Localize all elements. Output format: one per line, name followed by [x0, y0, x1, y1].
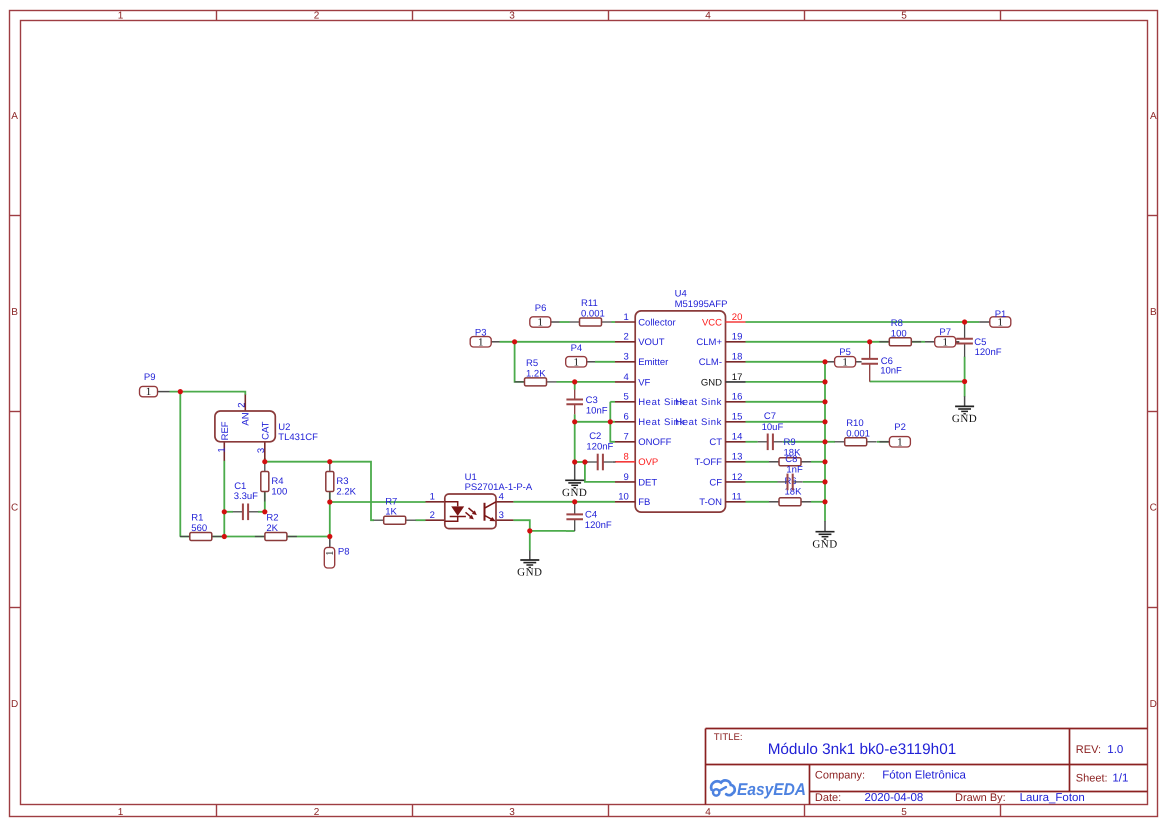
svg-text:1K: 1K	[385, 507, 397, 518]
svg-text:ONOFF: ONOFF	[638, 437, 671, 448]
svg-text:P9: P9	[144, 372, 156, 383]
svg-text:1: 1	[118, 11, 124, 22]
svg-text:11: 11	[732, 492, 742, 503]
svg-text:VOUT: VOUT	[638, 337, 665, 348]
svg-text:14: 14	[732, 432, 743, 443]
svg-text:GND: GND	[562, 487, 587, 499]
svg-text:3: 3	[256, 448, 267, 453]
svg-text:1/1: 1/1	[1112, 773, 1128, 785]
svg-text:P2: P2	[894, 422, 906, 433]
svg-text:P4: P4	[571, 343, 583, 354]
svg-text:Date:: Date:	[815, 792, 841, 804]
svg-text:A: A	[1150, 111, 1157, 122]
svg-text:Company:: Company:	[815, 769, 865, 781]
svg-text:10nF: 10nF	[880, 366, 902, 377]
svg-text:18: 18	[732, 352, 743, 363]
svg-text:P1: P1	[995, 309, 1007, 320]
svg-text:12: 12	[732, 472, 743, 483]
svg-text:D: D	[1150, 699, 1157, 710]
svg-text:3: 3	[499, 510, 504, 521]
svg-text:1: 1	[216, 447, 227, 452]
svg-text:P7: P7	[939, 327, 951, 338]
svg-text:DET: DET	[638, 477, 657, 488]
svg-text:3: 3	[509, 11, 515, 22]
svg-text:M51995AFP: M51995AFP	[675, 299, 728, 310]
svg-text:3.3uF: 3.3uF	[234, 491, 258, 502]
svg-text:Collector: Collector	[638, 317, 676, 328]
svg-text:2: 2	[314, 11, 320, 22]
svg-text:Fóton Eletrônica: Fóton Eletrônica	[882, 769, 966, 781]
svg-text:T-OFF: T-OFF	[695, 457, 723, 468]
svg-text:3: 3	[509, 807, 515, 818]
svg-text:Laura_Foton: Laura_Foton	[1020, 792, 1085, 804]
svg-text:R9: R9	[784, 437, 796, 448]
svg-text:1nF: 1nF	[786, 464, 803, 475]
svg-text:1: 1	[146, 386, 152, 398]
svg-text:B: B	[11, 307, 18, 318]
svg-text:10: 10	[618, 492, 629, 503]
svg-text:REF: REF	[220, 421, 231, 440]
svg-text:5: 5	[624, 392, 629, 403]
svg-text:A: A	[11, 111, 18, 122]
svg-text:8: 8	[624, 452, 629, 463]
svg-text:10uF: 10uF	[762, 422, 784, 433]
svg-text:16: 16	[732, 392, 743, 403]
svg-text:1.0: 1.0	[1107, 744, 1123, 756]
svg-text:120nF: 120nF	[586, 441, 613, 452]
svg-text:D: D	[11, 699, 18, 710]
svg-text:560: 560	[191, 523, 207, 534]
svg-text:Módulo 3nk1 bk0-e3119h01: Módulo 3nk1 bk0-e3119h01	[768, 741, 957, 758]
svg-text:AN: AN	[241, 412, 252, 425]
svg-text:1: 1	[897, 436, 903, 448]
svg-text:6: 6	[624, 412, 629, 423]
svg-text:2020-04-08: 2020-04-08	[865, 792, 924, 804]
svg-text:C4: C4	[585, 510, 597, 521]
svg-text:2K: 2K	[266, 523, 278, 534]
svg-text:CAT: CAT	[261, 421, 272, 439]
svg-text:19: 19	[732, 332, 743, 343]
svg-text:C: C	[11, 503, 18, 514]
svg-text:4: 4	[705, 11, 711, 22]
svg-text:4: 4	[499, 492, 504, 503]
svg-text:Drawn By:: Drawn By:	[955, 792, 1006, 804]
svg-text:1: 1	[430, 492, 435, 503]
svg-text:5: 5	[901, 11, 907, 22]
svg-text:10nF: 10nF	[586, 406, 608, 417]
svg-text:VCC: VCC	[702, 317, 722, 328]
svg-text:CT: CT	[709, 437, 722, 448]
svg-text:FB: FB	[638, 497, 650, 508]
svg-text:2: 2	[624, 332, 629, 343]
svg-text:TITLE:: TITLE:	[714, 732, 743, 743]
svg-text:2.2K: 2.2K	[336, 487, 356, 498]
svg-text:C: C	[1150, 503, 1157, 514]
svg-text:GND: GND	[701, 377, 722, 388]
svg-text:B: B	[1150, 307, 1157, 318]
svg-text:0.001: 0.001	[581, 309, 605, 320]
svg-text:13: 13	[732, 452, 743, 463]
svg-text:TL431CF: TL431CF	[278, 432, 318, 443]
svg-text:GND: GND	[952, 413, 977, 425]
svg-text:15: 15	[732, 412, 743, 423]
svg-text:T-ON: T-ON	[699, 497, 722, 508]
svg-text:GND: GND	[517, 567, 542, 579]
svg-text:1: 1	[942, 336, 948, 348]
svg-text:VF: VF	[638, 377, 650, 388]
svg-text:1: 1	[624, 312, 629, 323]
svg-text:2: 2	[237, 402, 248, 407]
svg-text:100: 100	[271, 487, 287, 498]
svg-text:1: 1	[325, 551, 336, 556]
svg-text:PS2701A-1-P-A: PS2701A-1-P-A	[465, 482, 533, 493]
svg-text:1: 1	[573, 356, 579, 368]
svg-text:Heat Sink: Heat Sink	[675, 397, 722, 408]
svg-text:C7: C7	[764, 411, 776, 422]
svg-text:P5: P5	[839, 347, 851, 358]
svg-text:1: 1	[118, 807, 124, 818]
svg-text:1.2K: 1.2K	[526, 368, 546, 379]
svg-text:P8: P8	[338, 547, 350, 558]
svg-text:EasyEDA: EasyEDA	[737, 780, 806, 799]
svg-text:P6: P6	[535, 303, 547, 314]
svg-text:REV:: REV:	[1076, 744, 1101, 756]
svg-text:1: 1	[842, 356, 848, 368]
svg-text:9: 9	[624, 472, 629, 483]
svg-text:OVP: OVP	[638, 457, 658, 468]
svg-text:4: 4	[624, 372, 629, 383]
svg-text:GND: GND	[812, 538, 837, 550]
svg-text:0.001: 0.001	[846, 428, 870, 439]
svg-text:17: 17	[732, 372, 743, 383]
svg-text:20: 20	[732, 312, 743, 323]
svg-text:2: 2	[430, 510, 435, 521]
svg-text:Emitter: Emitter	[638, 357, 668, 368]
svg-text:Heat Sink: Heat Sink	[675, 417, 722, 428]
svg-text:3: 3	[624, 352, 629, 363]
svg-text:120nF: 120nF	[975, 347, 1002, 358]
svg-text:120nF: 120nF	[585, 520, 612, 531]
svg-text:100: 100	[891, 328, 907, 339]
svg-text:7: 7	[624, 432, 629, 443]
svg-text:5: 5	[901, 807, 907, 818]
svg-text:R4: R4	[271, 476, 283, 487]
svg-text:1: 1	[538, 317, 544, 329]
svg-text:2: 2	[314, 807, 320, 818]
svg-text:R3: R3	[336, 476, 348, 487]
svg-text:CLM-: CLM-	[699, 357, 722, 368]
svg-text:Sheet:: Sheet:	[1076, 773, 1108, 785]
svg-text:CLM+: CLM+	[696, 337, 722, 348]
svg-text:4: 4	[705, 807, 711, 818]
svg-text:CF: CF	[709, 477, 722, 488]
svg-text:P3: P3	[475, 327, 487, 338]
